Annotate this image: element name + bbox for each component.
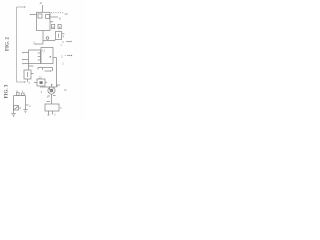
svg-text:31: 31	[59, 17, 63, 21]
svg-text:FIG. 2: FIG. 2	[6, 37, 11, 51]
svg-text:41: 41	[40, 1, 44, 5]
svg-text:=: =	[65, 54, 67, 58]
svg-text:40: 40	[65, 12, 69, 16]
svg-text:12: 12	[42, 49, 46, 53]
svg-text:FIG. 3: FIG. 3	[5, 84, 10, 98]
svg-text:23: 23	[39, 76, 43, 80]
